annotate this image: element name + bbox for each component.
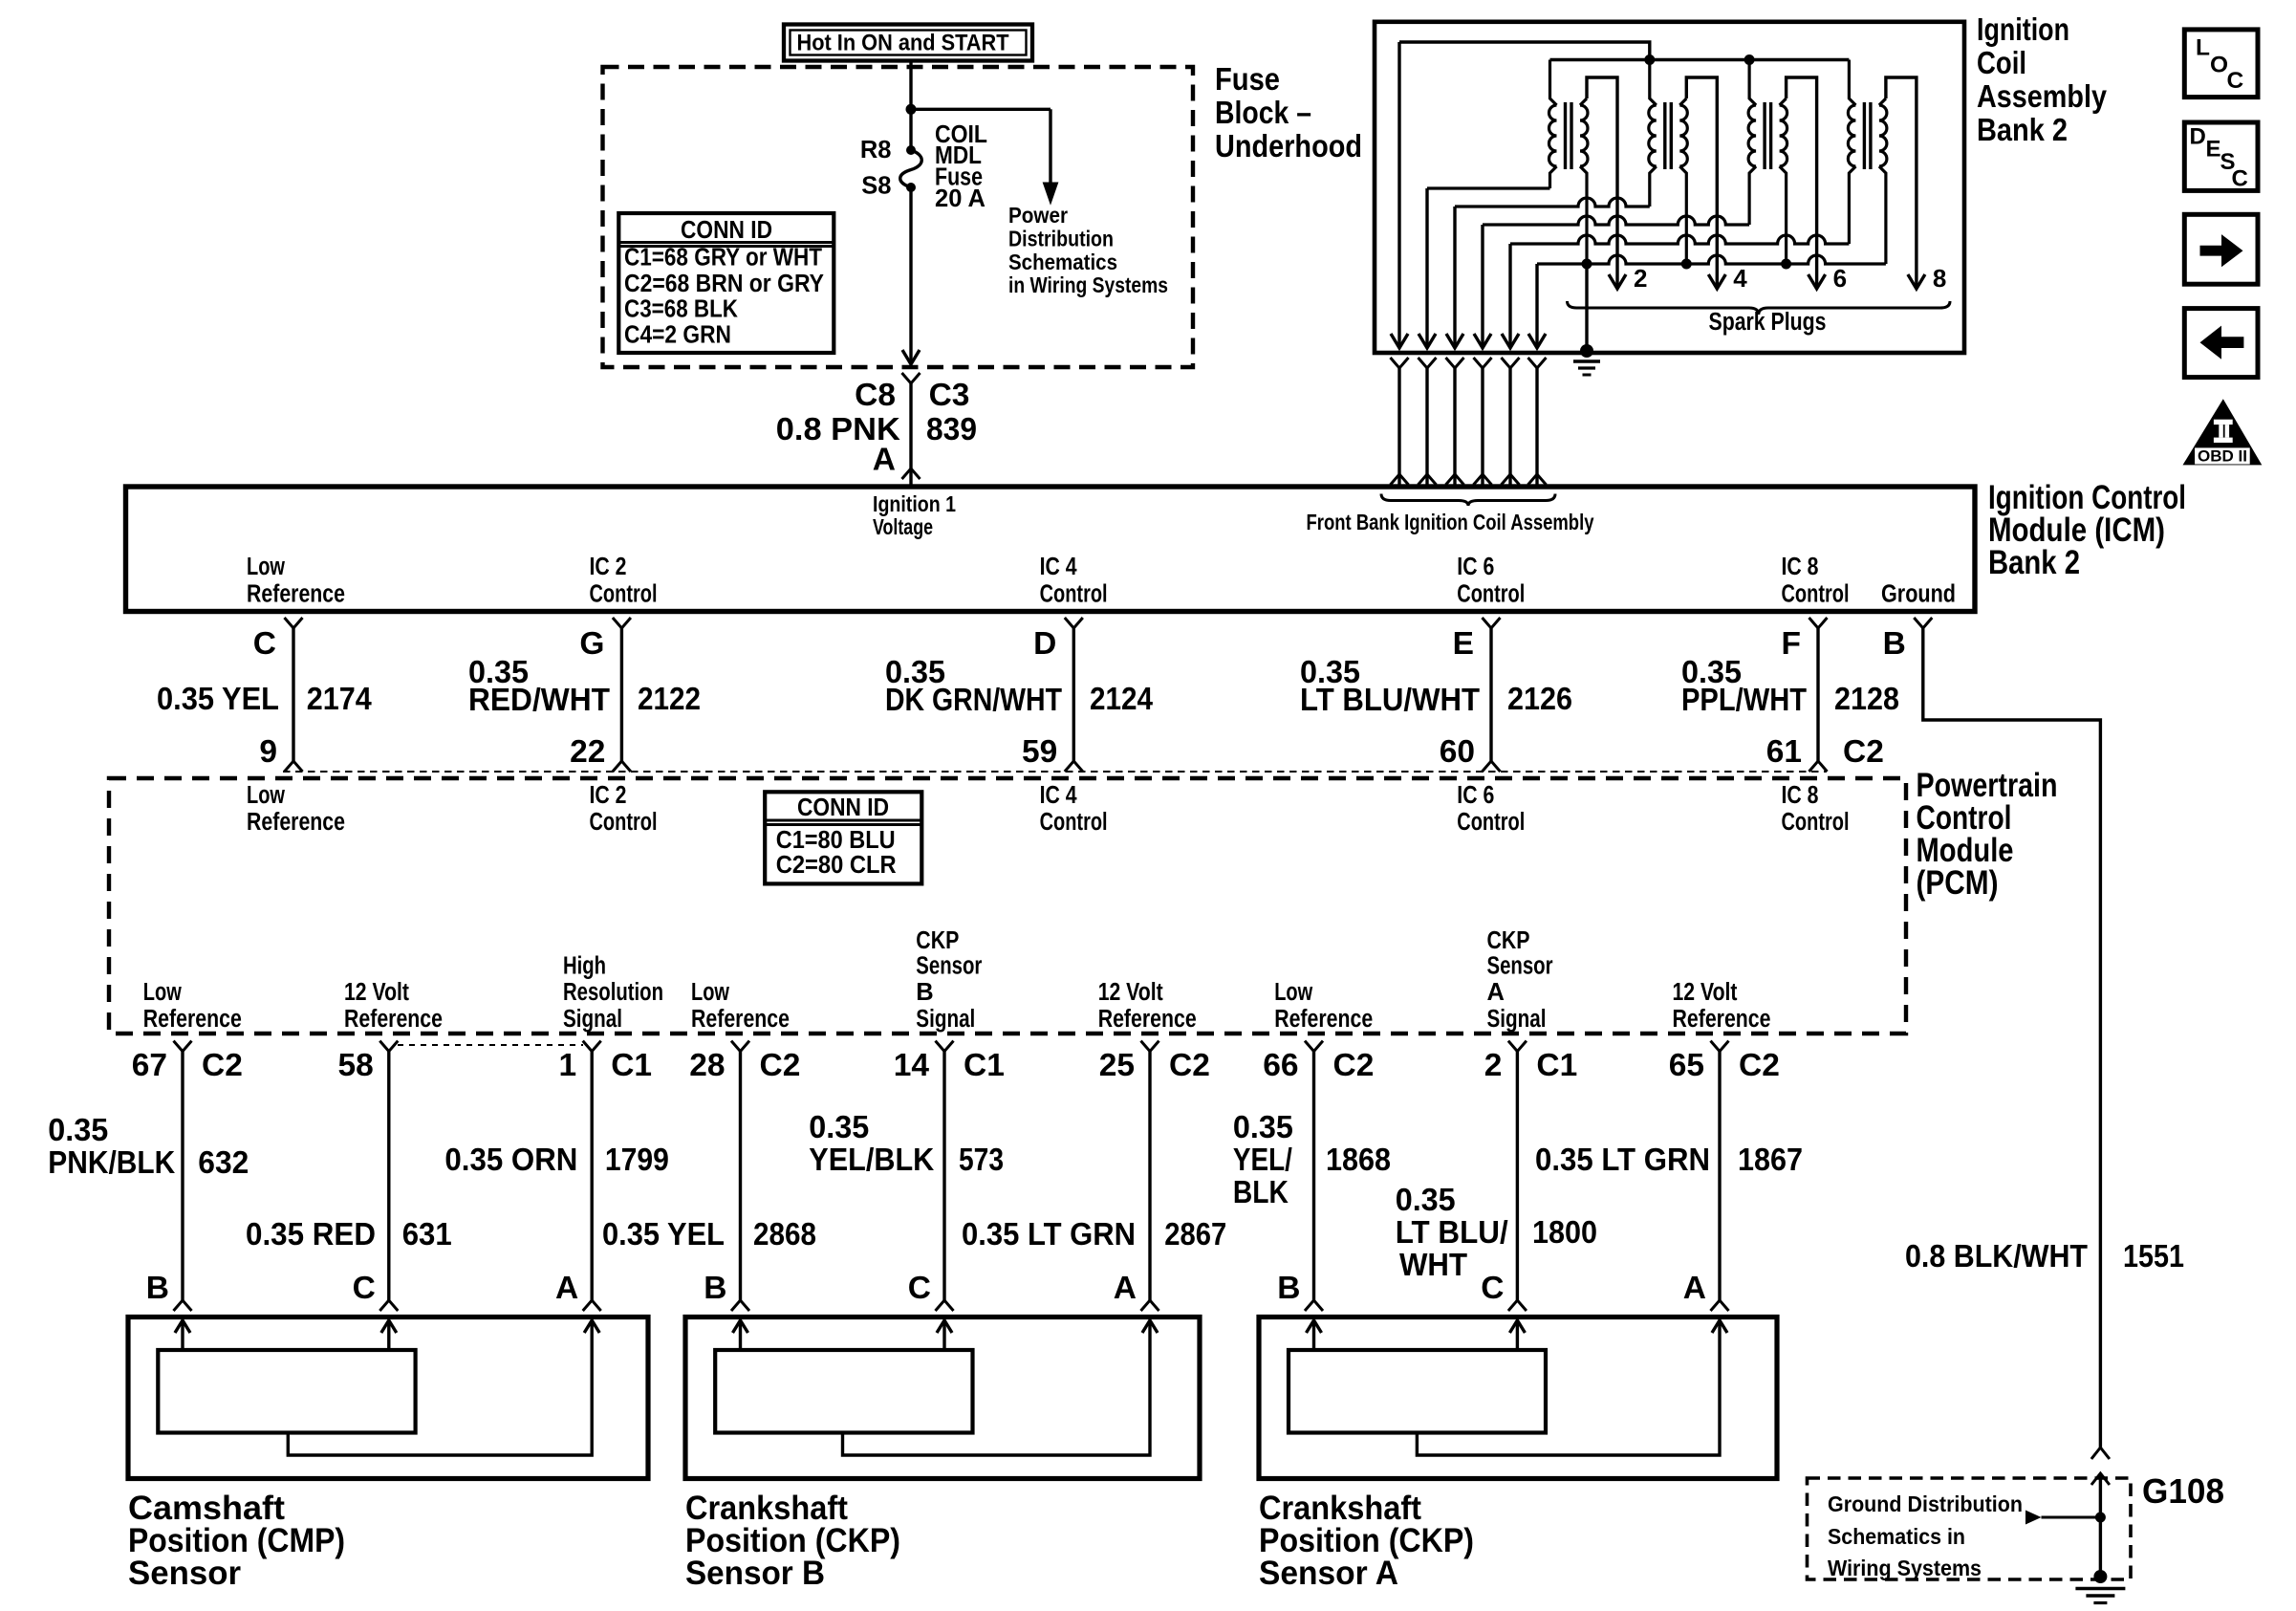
arrowhead into fuse block edge bbox=[902, 350, 920, 364]
wire coil assembly lead 6 inside box bbox=[1535, 264, 1538, 347]
svg-text:Control: Control bbox=[1457, 809, 1525, 836]
svg-text:2122: 2122 bbox=[638, 681, 701, 716]
svg-text:66: 66 bbox=[1263, 1048, 1298, 1083]
junction secondary 3 to ground bbox=[1781, 259, 1791, 270]
svg-text:Underhood: Underhood bbox=[1215, 128, 1362, 163]
svg-text:0.35: 0.35 bbox=[1233, 1109, 1293, 1144]
camshaft position CMP sensor internal arrow pin B bbox=[181, 1323, 184, 1349]
PCM pin 14 connector bbox=[936, 1041, 954, 1052]
svg-text:Reference: Reference bbox=[143, 1006, 242, 1033]
svg-text:12 Volt: 12 Volt bbox=[344, 979, 409, 1006]
svg-text:L: L bbox=[2196, 35, 2210, 61]
svg-text:0.8 BLK/WHT: 0.8 BLK/WHT bbox=[1905, 1238, 2088, 1274]
svg-text:Reference: Reference bbox=[247, 581, 345, 608]
svg-text:67: 67 bbox=[132, 1048, 167, 1083]
svg-text:573: 573 bbox=[959, 1142, 1004, 1177]
ignition control module ICM box bbox=[126, 487, 1976, 612]
wire secondary to spark plug 2 bbox=[1587, 77, 1617, 287]
svg-text:R8: R8 bbox=[860, 137, 892, 163]
ground symbol coil assembly bbox=[1580, 344, 1593, 358]
svg-text:Fuse: Fuse bbox=[1215, 61, 1280, 97]
svg-text:IC 6: IC 6 bbox=[1457, 782, 1494, 809]
svg-text:C1=80 BLU: C1=80 BLU bbox=[776, 827, 896, 854]
svg-text:Ignition: Ignition bbox=[1977, 11, 2069, 47]
svg-text:B: B bbox=[916, 979, 933, 1006]
crankshaft position CKP sensor A internal arrow pin B bbox=[1312, 1323, 1315, 1349]
svg-text:C: C bbox=[253, 626, 276, 662]
svg-text:C: C bbox=[353, 1271, 376, 1306]
svg-text:Reference: Reference bbox=[247, 809, 345, 836]
svg-text:Control: Control bbox=[590, 581, 658, 608]
svg-text:B: B bbox=[1883, 626, 1906, 662]
inline connector dashed line C2 bbox=[283, 771, 1827, 773]
svg-text:Low: Low bbox=[247, 782, 285, 809]
svg-text:Control: Control bbox=[1040, 809, 1108, 836]
svg-text:G: G bbox=[579, 626, 604, 662]
wire PCM pin 65 to sensor pin A bbox=[1718, 1052, 1721, 1300]
svg-text:IC 8: IC 8 bbox=[1782, 554, 1819, 580]
svg-text:1800: 1800 bbox=[1532, 1214, 1597, 1250]
node Hot In ON and START feed box bbox=[784, 25, 1032, 61]
svg-text:2174: 2174 bbox=[307, 681, 373, 716]
svg-text:RED/WHT: RED/WHT bbox=[468, 682, 610, 717]
crankshaft position CKP sensor B element box bbox=[715, 1350, 972, 1433]
svg-text:1868: 1868 bbox=[1326, 1142, 1391, 1177]
svg-text:C1: C1 bbox=[611, 1048, 652, 1083]
ignition coil T3 (cyl 6) core bbox=[1763, 102, 1765, 169]
svg-text:IC 4: IC 4 bbox=[1040, 554, 1078, 580]
svg-text:O: O bbox=[2210, 53, 2228, 78]
ignition coil assembly bank 2 box bbox=[1375, 22, 1964, 353]
icon LOC box bbox=[2184, 30, 2258, 98]
svg-text:Low: Low bbox=[1274, 979, 1312, 1006]
svg-text:1799: 1799 bbox=[605, 1142, 669, 1177]
svg-text:Distribution: Distribution bbox=[1008, 227, 1114, 251]
PCM pin 25 connector bbox=[1141, 1041, 1159, 1052]
wire coil assembly lead 1 inside box bbox=[1397, 42, 1400, 347]
svg-text:C2=80 CLR: C2=80 CLR bbox=[776, 852, 897, 879]
svg-text:Low: Low bbox=[143, 979, 182, 1006]
crankshaft position CKP sensor B internal arrow pin B bbox=[739, 1323, 742, 1349]
wire coil assembly lead 2 inside box bbox=[1425, 188, 1428, 347]
wire ICM pin C bbox=[292, 628, 294, 761]
svg-text:C2: C2 bbox=[202, 1048, 243, 1083]
svg-text:6: 6 bbox=[1833, 264, 1847, 293]
svg-text:CKP: CKP bbox=[1487, 927, 1530, 954]
wire ICM pin D bbox=[1072, 628, 1075, 761]
crankshaft position CKP sensor A box bbox=[1259, 1317, 1777, 1479]
ICM pin D connector bbox=[1065, 618, 1083, 628]
wire PCM pin 58 to sensor pin C bbox=[387, 1052, 390, 1300]
wire ground 1551 from ICM pin B to G108 bbox=[1923, 628, 2101, 1448]
svg-text:2: 2 bbox=[1484, 1048, 1503, 1083]
wire IC control coil 1 bbox=[1427, 186, 1550, 189]
svg-text:Assembly: Assembly bbox=[1977, 78, 2108, 114]
wire coil assembly lead 5 inside box bbox=[1508, 244, 1511, 347]
svg-text:C: C bbox=[1481, 1271, 1504, 1306]
PCM pin 2 connector bbox=[1508, 1041, 1527, 1052]
svg-text:A: A bbox=[1114, 1271, 1137, 1306]
brace front bank ignition coil assembly bbox=[1381, 494, 1555, 507]
wire secondary to spark plug 8 bbox=[1886, 77, 1917, 287]
svg-text:WHT: WHT bbox=[1399, 1247, 1467, 1282]
svg-text:1551: 1551 bbox=[2123, 1238, 2184, 1274]
svg-text:C3=68 BLK: C3=68 BLK bbox=[624, 296, 739, 323]
svg-text:E: E bbox=[1453, 626, 1474, 662]
wire PCM pin 25 to sensor pin A bbox=[1148, 1052, 1151, 1300]
arrow to ground distribution bbox=[2025, 1511, 2042, 1525]
wire IC control coil 2 bbox=[1455, 198, 1650, 207]
PCM pin 58 connector bbox=[379, 1041, 398, 1052]
ignition coil T2 (cyl 4) core bbox=[1663, 102, 1666, 169]
ICM pin F connector bbox=[1809, 618, 1828, 628]
svg-text:B: B bbox=[1277, 1271, 1300, 1306]
svg-text:YEL/BLK: YEL/BLK bbox=[809, 1142, 934, 1177]
junction on G108 wire bbox=[2095, 1513, 2106, 1523]
wire PCM pin 67 to sensor pin B bbox=[181, 1052, 184, 1300]
svg-text:Coil: Coil bbox=[1977, 45, 2026, 80]
icon forward arrow box bbox=[2184, 214, 2258, 284]
wire coil assembly lead 3 inside box bbox=[1453, 207, 1456, 347]
svg-text:Control: Control bbox=[1782, 809, 1850, 836]
svg-text:1: 1 bbox=[559, 1048, 577, 1083]
connector lead 1 to ICM bbox=[1391, 358, 1409, 368]
PCM pin 66 connector bbox=[1305, 1041, 1323, 1052]
svg-text:1867: 1867 bbox=[1738, 1142, 1803, 1177]
wire secondary to spark plug 4 bbox=[1686, 77, 1717, 287]
svg-text:0.35 YEL: 0.35 YEL bbox=[602, 1216, 725, 1252]
ICM pin G connector bbox=[613, 618, 631, 628]
camshaft position CMP sensor internal arrow pin C bbox=[387, 1323, 390, 1349]
ignition coil T2 (cyl 4) secondary winding bbox=[1679, 98, 1687, 264]
svg-text:Sensor: Sensor bbox=[128, 1555, 241, 1592]
junction feed coil 2 bbox=[1644, 54, 1655, 65]
wire PCM pin 28 to sensor pin B bbox=[739, 1052, 742, 1300]
svg-text:60: 60 bbox=[1440, 734, 1475, 770]
svg-text:0.35 LT GRN: 0.35 LT GRN bbox=[962, 1216, 1136, 1252]
camshaft position CMP sensor internal loop wire to pin A bbox=[288, 1323, 592, 1455]
svg-text:B: B bbox=[146, 1271, 169, 1306]
svg-text:65: 65 bbox=[1669, 1048, 1704, 1083]
svg-text:Control: Control bbox=[1040, 581, 1108, 608]
svg-text:G108: G108 bbox=[2142, 1471, 2224, 1511]
wire IC control coil 3 bbox=[1483, 216, 1749, 225]
svg-text:IC 8: IC 8 bbox=[1782, 782, 1819, 809]
junction on ignition feed bbox=[906, 104, 917, 115]
ICM pin E connector bbox=[1483, 618, 1501, 628]
svg-text:in Wiring Systems: in Wiring Systems bbox=[1008, 272, 1168, 297]
svg-text:A: A bbox=[873, 443, 896, 478]
svg-text:2: 2 bbox=[1634, 264, 1647, 293]
svg-text:0.35 LT GRN: 0.35 LT GRN bbox=[1535, 1142, 1710, 1177]
wire fuse to ICM pin A bbox=[909, 187, 912, 363]
svg-text:LT BLU/: LT BLU/ bbox=[1396, 1214, 1508, 1250]
svg-text:A: A bbox=[1683, 1271, 1706, 1306]
svg-text:Power: Power bbox=[1008, 203, 1068, 228]
connector C8-C3 inline symbols bbox=[902, 373, 921, 383]
svg-text:IC 2: IC 2 bbox=[590, 782, 627, 809]
wire ICM pin E bbox=[1489, 628, 1492, 761]
svg-text:Signal: Signal bbox=[563, 1006, 622, 1033]
spark plug arrow 8 bbox=[1908, 274, 1925, 289]
PCM pin 28 connector bbox=[731, 1041, 749, 1052]
svg-text:A: A bbox=[555, 1271, 578, 1306]
svg-text:9: 9 bbox=[259, 734, 277, 770]
svg-text:D: D bbox=[2190, 124, 2206, 150]
svg-text:IC 2: IC 2 bbox=[590, 554, 627, 580]
junction secondary 2 to ground bbox=[1681, 259, 1692, 270]
connector lead 5 to ICM bbox=[1502, 358, 1520, 368]
svg-text:C1: C1 bbox=[964, 1048, 1005, 1083]
ICM pin C connector bbox=[285, 618, 303, 628]
crankshaft position CKP sensor A element box bbox=[1289, 1350, 1546, 1433]
svg-text:Reference: Reference bbox=[1673, 1006, 1771, 1033]
svg-text:CONN ID: CONN ID bbox=[681, 215, 772, 244]
svg-text:20 A: 20 A bbox=[935, 185, 986, 212]
wire PCM pin 14 to sensor pin C bbox=[942, 1052, 945, 1300]
svg-text:4: 4 bbox=[1733, 264, 1747, 293]
svg-text:839: 839 bbox=[926, 411, 977, 446]
svg-text:2128: 2128 bbox=[1834, 681, 1899, 716]
svg-text:61: 61 bbox=[1766, 734, 1802, 770]
svg-text:C: C bbox=[2227, 68, 2244, 94]
svg-text:14: 14 bbox=[894, 1048, 930, 1083]
svg-text:Sensor B: Sensor B bbox=[685, 1555, 825, 1592]
connector lead 3 to ICM bbox=[1446, 358, 1464, 368]
conn id table fuse block bbox=[618, 213, 834, 353]
svg-text:C2: C2 bbox=[1739, 1048, 1780, 1083]
svg-text:2124: 2124 bbox=[1090, 681, 1154, 716]
svg-text:Wiring Systems: Wiring Systems bbox=[1828, 1556, 1982, 1580]
ground distribution dashed box bbox=[1808, 1478, 2132, 1579]
svg-text:D: D bbox=[1033, 626, 1056, 662]
camshaft position CMP sensor box bbox=[128, 1317, 648, 1479]
inline dashed connector between pins 58 and 1 bbox=[398, 1044, 583, 1046]
svg-text:C2: C2 bbox=[1843, 734, 1884, 770]
svg-text:25: 25 bbox=[1099, 1048, 1135, 1083]
spark plug arrow 4 bbox=[1708, 274, 1725, 289]
svg-text:Control: Control bbox=[1457, 581, 1525, 608]
svg-text:632: 632 bbox=[198, 1144, 249, 1180]
wire arrow to G108 wire bbox=[2042, 1516, 2101, 1519]
svg-text:Schematics: Schematics bbox=[1008, 250, 1117, 274]
wire ignition feed bus upper bbox=[1399, 42, 1650, 60]
brace spark plugs bbox=[1568, 301, 1951, 315]
svg-text:C4=2 GRN: C4=2 GRN bbox=[624, 322, 731, 349]
crankshaft position CKP sensor A internal loop wire to pin A bbox=[1417, 1323, 1720, 1455]
connector lead 2 to ICM bbox=[1419, 358, 1437, 368]
wire branch to power distribution arrow bbox=[911, 108, 1051, 111]
spark plug arrow 6 bbox=[1809, 274, 1826, 289]
svg-text:Control: Control bbox=[590, 809, 658, 836]
wire ground drop inside coil assembly bbox=[1585, 264, 1588, 351]
svg-text:C2=68 BRN or GRY: C2=68 BRN or GRY bbox=[624, 271, 824, 297]
svg-text:0.8 PNK: 0.8 PNK bbox=[776, 411, 900, 446]
svg-text:Reference: Reference bbox=[1274, 1006, 1373, 1033]
svg-text:Reference: Reference bbox=[691, 1006, 790, 1033]
svg-text:Signal: Signal bbox=[1487, 1006, 1547, 1033]
svg-text:Reference: Reference bbox=[344, 1006, 443, 1033]
wire secondary to spark plug 6 bbox=[1787, 77, 1817, 287]
conn id table PCM bbox=[765, 792, 921, 883]
svg-text:C3: C3 bbox=[929, 378, 970, 413]
ignition coil T4 (cyl 8) core bbox=[1863, 102, 1866, 169]
svg-text:Ground Distribution: Ground Distribution bbox=[1828, 1491, 2023, 1516]
svg-text:Low: Low bbox=[691, 979, 729, 1006]
svg-text:28: 28 bbox=[689, 1048, 725, 1083]
svg-text:CKP: CKP bbox=[916, 927, 959, 954]
svg-text:Reference: Reference bbox=[1098, 1006, 1197, 1033]
svg-text:DK GRN/WHT: DK GRN/WHT bbox=[885, 682, 1062, 717]
ignition coil T3 (cyl 6) secondary winding bbox=[1780, 98, 1787, 264]
svg-text:C2: C2 bbox=[1169, 1048, 1210, 1083]
ignition coil T2 (cyl 4) primary winding bbox=[1649, 60, 1657, 207]
svg-text:Resolution: Resolution bbox=[563, 979, 663, 1006]
ignition coil T1 (cyl 2) core bbox=[1564, 102, 1567, 169]
svg-text:Sensor A: Sensor A bbox=[1259, 1555, 1398, 1592]
svg-text:PNK/BLK: PNK/BLK bbox=[48, 1144, 175, 1180]
wire PCM pin 1 to sensor pin A bbox=[591, 1052, 594, 1300]
svg-text:C8: C8 bbox=[855, 378, 896, 413]
camshaft position CMP sensor element box bbox=[158, 1350, 415, 1433]
svg-text:8: 8 bbox=[1933, 264, 1946, 293]
svg-text:0.35: 0.35 bbox=[48, 1112, 108, 1147]
svg-text:Bank 2: Bank 2 bbox=[1988, 544, 2080, 581]
crankshaft position CKP sensor A internal arrow pin C bbox=[1516, 1323, 1519, 1349]
svg-text:C1: C1 bbox=[1536, 1048, 1577, 1083]
svg-text:22: 22 bbox=[570, 734, 605, 770]
svg-text:0.35: 0.35 bbox=[809, 1109, 869, 1144]
wire coil assembly lead 4 inside box bbox=[1481, 225, 1484, 347]
svg-text:C: C bbox=[908, 1271, 931, 1306]
junction secondary 1 to ground bbox=[1582, 259, 1592, 270]
svg-text:58: 58 bbox=[338, 1048, 374, 1083]
svg-text:CONN ID: CONN ID bbox=[797, 793, 889, 821]
wire ICM pin F bbox=[1816, 628, 1819, 761]
svg-text:C2: C2 bbox=[1333, 1048, 1375, 1083]
svg-text:12 Volt: 12 Volt bbox=[1098, 979, 1163, 1006]
svg-text:Ground: Ground bbox=[1881, 581, 1956, 608]
crankshaft position CKP sensor B internal loop wire to pin A bbox=[843, 1323, 1151, 1455]
svg-text:Low: Low bbox=[247, 554, 285, 580]
svg-text:2868: 2868 bbox=[753, 1216, 816, 1252]
svg-text:E: E bbox=[2206, 137, 2221, 163]
svg-text:LT BLU/WHT: LT BLU/WHT bbox=[1300, 682, 1480, 717]
icon OBD II triangle bbox=[2183, 399, 2263, 465]
wire PCM pin 66 to sensor pin B bbox=[1312, 1052, 1315, 1300]
ignition coil T4 (cyl 8) primary winding bbox=[1848, 60, 1855, 245]
svg-text:C2: C2 bbox=[760, 1048, 801, 1083]
wire from hot feed to fuse bbox=[909, 60, 912, 150]
crankshaft position CKP sensor B box bbox=[685, 1317, 1200, 1479]
svg-text:Bank 2: Bank 2 bbox=[1977, 112, 2068, 147]
svg-text:C: C bbox=[2232, 166, 2248, 192]
junction feed coil 3 bbox=[1744, 54, 1755, 65]
svg-text:Spark Plugs: Spark Plugs bbox=[1709, 309, 1827, 336]
svg-text:Ignition 1: Ignition 1 bbox=[873, 491, 956, 516]
svg-text:Hot In ON and START: Hot In ON and START bbox=[797, 31, 1009, 56]
svg-text:Voltage: Voltage bbox=[873, 514, 933, 539]
svg-text:A: A bbox=[1487, 979, 1505, 1006]
wire PCM pin 2 to sensor pin C bbox=[1516, 1052, 1519, 1300]
svg-text:High: High bbox=[563, 953, 606, 980]
svg-text:Sensor: Sensor bbox=[1487, 953, 1553, 980]
spark plug arrow 2 bbox=[1609, 274, 1626, 289]
svg-text:Block –: Block – bbox=[1215, 95, 1311, 130]
svg-text:Front Bank Ignition Coil Assem: Front Bank Ignition Coil Assembly bbox=[1307, 510, 1594, 534]
svg-text:B: B bbox=[704, 1271, 726, 1306]
icon DESC box bbox=[2184, 122, 2258, 190]
fuse F COIL MDL 20A bbox=[906, 145, 916, 155]
svg-text:Control: Control bbox=[1782, 581, 1850, 608]
svg-text:YEL/: YEL/ bbox=[1233, 1142, 1292, 1177]
svg-text:C1=68 GRY or WHT: C1=68 GRY or WHT bbox=[624, 245, 822, 272]
powertrain control module PCM dashed box bbox=[109, 778, 1906, 1034]
svg-text:0.35 ORN: 0.35 ORN bbox=[444, 1142, 577, 1177]
ignition coil T4 (cyl 8) secondary winding bbox=[1879, 98, 1887, 264]
PCM pin 1 connector bbox=[583, 1041, 601, 1052]
crankshaft position CKP sensor B internal arrow pin C bbox=[942, 1323, 945, 1349]
svg-text:0.35 YEL: 0.35 YEL bbox=[157, 681, 279, 716]
wire secondary ground bus bbox=[1537, 255, 1886, 264]
icon back arrow box bbox=[2184, 309, 2258, 378]
svg-text:PPL/WHT: PPL/WHT bbox=[1681, 682, 1807, 717]
wire ignition feed bus lower bbox=[1550, 58, 1850, 61]
svg-text:59: 59 bbox=[1022, 734, 1057, 770]
ground symbol G108 bbox=[2093, 1570, 2107, 1583]
wire IC control coil 4 bbox=[1510, 235, 1849, 244]
svg-text:IC 6: IC 6 bbox=[1457, 554, 1494, 580]
ignition coil T3 (cyl 6) primary winding bbox=[1748, 60, 1756, 226]
svg-text:12 Volt: 12 Volt bbox=[1673, 979, 1738, 1006]
svg-text:Signal: Signal bbox=[916, 1006, 975, 1033]
svg-text:IC 4: IC 4 bbox=[1040, 782, 1078, 809]
svg-text:Schematics in: Schematics in bbox=[1828, 1524, 1965, 1549]
svg-text:2867: 2867 bbox=[1164, 1216, 1226, 1252]
fuse block underhood dashed box bbox=[603, 67, 1194, 367]
svg-text:Sensor: Sensor bbox=[916, 953, 982, 980]
svg-text:F: F bbox=[1782, 626, 1801, 662]
svg-text:S8: S8 bbox=[861, 173, 891, 200]
ICM pin B connector bbox=[1914, 618, 1932, 628]
ignition coil T1 (cyl 2) secondary winding bbox=[1580, 98, 1588, 264]
svg-text:2126: 2126 bbox=[1507, 681, 1572, 716]
ignition coil T1 (cyl 2) primary winding bbox=[1549, 60, 1557, 189]
svg-text:OBD II: OBD II bbox=[2198, 448, 2247, 466]
svg-text:631: 631 bbox=[402, 1216, 452, 1252]
svg-text:0.35: 0.35 bbox=[1396, 1182, 1456, 1217]
wire ICM pin G bbox=[620, 628, 623, 761]
svg-text:0.35 RED: 0.35 RED bbox=[246, 1216, 376, 1252]
PCM pin 67 connector bbox=[174, 1041, 192, 1052]
PCM pin 65 connector bbox=[1711, 1041, 1729, 1052]
svg-text:BLK: BLK bbox=[1233, 1174, 1289, 1209]
svg-text:(PCM): (PCM) bbox=[1917, 864, 1999, 902]
power distribution arrowhead bbox=[1043, 183, 1059, 206]
connector lead 4 to ICM bbox=[1474, 358, 1492, 368]
connector lead 6 to ICM bbox=[1528, 358, 1547, 368]
inline connector on ground wire bbox=[2091, 1448, 2110, 1459]
